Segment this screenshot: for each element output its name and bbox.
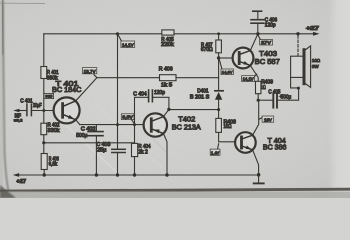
node rail dot C402 [95,173,98,176]
node speaker rail junction [296,32,299,35]
wire feedback line to R404 [44,142,135,144]
resistor R407 [201,32,222,58]
resistor R408 [216,118,236,132]
wire left bias column [43,34,45,67]
node 13,7V label [82,68,96,78]
node rail/C406 junction [256,32,259,35]
node 27V label [258,36,272,46]
node rail dot C403 [116,173,119,176]
wire R408 to T404 base [219,132,236,141]
wire T401 emitter diagonal [76,120,80,125]
wire base node to T403 [219,57,233,59]
node 14,6V label [219,60,233,75]
wire T404 emitter down [253,150,259,175]
wire bottom rail [17,174,259,176]
wire long vertical rail to C403 [117,34,119,149]
wire R402 to junction [43,135,45,143]
diode D401 [190,89,223,119]
node output junction [257,99,260,102]
resistor R405 [162,30,174,35]
wire T402 emitter to ground rail [164,134,168,176]
node R402/R403 junction [42,141,45,144]
resistor R404 [132,125,151,175]
node rail dot R403 [43,173,46,176]
resistor R406 [160,75,177,81]
node diode/R408 junction [217,108,220,111]
node 14,1V emitter label [242,74,257,81]
node 13V label [259,116,273,122]
wire R406 to driver chain [176,77,219,79]
wire top supply rail [44,33,162,35]
wire T403 collector to rail [250,34,258,51]
wire R401 to base node [43,79,45,111]
node T401 base junction [42,109,45,112]
node T402 base line junction [116,123,119,126]
wire R403 to ground rail [43,170,45,176]
node 3,8V label [121,114,134,124]
wire T403 emitter to R409 [250,65,258,81]
capacitor C405 [258,88,298,107]
resistor R409 [256,80,274,101]
resistor R403 [41,154,47,170]
resistor R402 [41,123,47,135]
resistor R401 [41,67,47,79]
wire base node down to D401 [218,58,220,90]
wire base node to R402 [43,111,45,124]
node rail dot R404 [133,173,136,176]
node top rail arrow +27 [313,32,320,36]
wire junction to R403 [43,143,45,154]
node rail dot T402 emitter [165,173,168,176]
node rail junction A [116,32,119,35]
wire base line to T402 [80,124,144,126]
node rail end junction [257,173,261,177]
capacitor C402 [76,125,103,175]
wire C401 to T401 base [32,110,53,112]
node T403 base junction [217,56,220,59]
transistor T403 [233,48,280,69]
wire collector node to diode chain [169,109,219,111]
capacitor C403 [96,142,125,175]
ground [254,175,264,184]
capacitor C401 [20,99,42,116]
wire T404 collector to output node [253,100,259,135]
transistor T401 [52,79,82,124]
capacitor C406 [251,11,277,34]
wire collector node to R406 [97,77,160,79]
wire dashed speaker feed [297,36,299,57]
wire T402 collector to node [164,109,169,116]
node 985 voltage box [44,93,54,98]
capacitor C404 [133,90,169,126]
wire T401 collector diagonal [76,78,97,101]
node T402 collector junction [167,108,170,111]
node 1,4V label [210,144,220,156]
transistor T404 [235,132,286,153]
node 14,1V label [118,35,134,47]
speaker LS [291,46,321,90]
node NF input arrow [17,110,27,112]
node bottom rail arrow +27 [13,173,19,177]
transistor T402 [144,113,201,136]
